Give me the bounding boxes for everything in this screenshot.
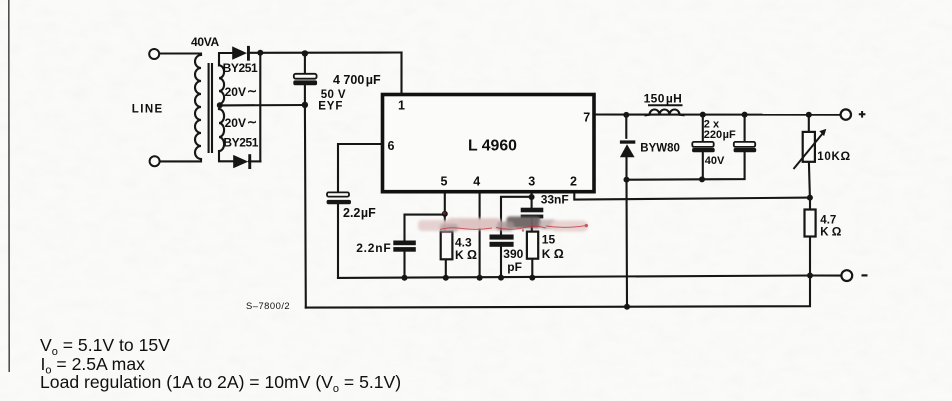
svg-text:L 4960: L 4960 — [468, 137, 517, 154]
svg-text:33nF: 33nF — [541, 192, 569, 206]
svg-text:K Ω: K Ω — [455, 248, 477, 262]
svg-text:K Ω: K Ω — [820, 224, 842, 238]
capacitor C6b 220uF — [734, 142, 757, 152]
wire: pin 4 down to rail — [479, 192, 481, 278]
wire: 390pF bottom to rail — [500, 247, 502, 278]
wire: BYW80 cathode up to rail — [625, 115, 627, 138]
transformer T1 primary winding — [195, 55, 201, 159]
wire: BYW80 anode down, through to ground rail — [625, 157, 628, 307]
svg-text:K Ω: K Ω — [542, 247, 564, 261]
svg-text:40V: 40V — [705, 155, 725, 167]
node: pin5 / 2.2nF junction — [442, 211, 448, 217]
wire: pot R3 bottom to pin2 junction — [809, 162, 810, 198]
svg-text:5: 5 — [441, 175, 448, 189]
wire: minus terminal stub — [810, 274, 841, 276]
wire: 2.2nF top to pin5 junction — [405, 215, 445, 241]
wire: pin 2 feedback to potentiometer junction — [574, 192, 810, 200]
diode D2 BY251 bottom — [233, 154, 251, 169]
svg-text:2: 2 — [570, 175, 577, 189]
capacitor C3 2.2nF — [393, 241, 416, 252]
IC U1 L4960 — [383, 95, 595, 192]
node: center tap at C1 — [302, 102, 308, 108]
svg-text:S–7800/2: S–7800/2 — [246, 300, 290, 311]
svg-text:LINE: LINE — [132, 104, 164, 116]
node: output rail C6b — [742, 112, 748, 118]
svg-text:220µF: 220µF — [704, 129, 736, 141]
node: pin3 / 390pF junction — [529, 194, 535, 200]
minus sign — [862, 274, 868, 276]
capacitor C1 4700uF — [293, 74, 317, 85]
node: rectifier riser joins top wire — [257, 50, 263, 56]
svg-text:4: 4 — [473, 175, 480, 189]
wire: C1 bottom down to ground rail — [304, 85, 307, 308]
svg-text:150µH: 150µH — [644, 92, 683, 106]
svg-text:20V∼: 20V∼ — [225, 115, 257, 130]
svg-text:BY251: BY251 — [223, 61, 258, 75]
node: rail 390pF — [498, 275, 504, 281]
wire: line input bottom terminal to primary — [161, 159, 202, 161]
capacitor C2 2.2uF — [327, 192, 351, 204]
component ground rail — [338, 276, 810, 278]
svg-text:7: 7 — [583, 110, 590, 124]
terminal + output — [841, 109, 851, 119]
node: rail R1 — [443, 275, 449, 281]
wire: pin 3 down to 33nF — [531, 192, 533, 208]
wire: secondary bottom to diode D2 — [219, 151, 233, 161]
svg-text:BY251: BY251 — [223, 136, 258, 150]
sub rail under output filter caps — [627, 152, 745, 180]
scan page edge line — [8, 0, 10, 372]
node: output rail C6a — [700, 112, 706, 118]
wire: R4 top — [809, 198, 811, 210]
svg-text:20V∼: 20V∼ — [225, 84, 257, 99]
node: BYW80 anode / sub rail — [624, 177, 630, 183]
wire: R2 bottom to rail — [531, 259, 533, 278]
node: rail R2 — [529, 275, 535, 281]
inductor L1 150uH — [646, 109, 684, 115]
node: R4 bottom / minus rail — [807, 273, 813, 279]
transformer T1 core — [208, 64, 210, 152]
wire: pin 5 down to R1 — [444, 192, 446, 232]
wire: pin 6 to C2 — [338, 144, 383, 192]
wire: 2.2nF bottom to rail — [403, 252, 405, 278]
bottom caption text — [40, 335, 401, 395]
schematic labels — [132, 35, 851, 311]
resistor R2 15K — [527, 232, 538, 259]
node: rail 2.2nF — [402, 275, 408, 281]
wire: pin 1 riser into IC — [400, 53, 402, 95]
capacitor C5 33nF — [521, 208, 544, 219]
svg-text:1: 1 — [398, 99, 405, 113]
node: rail pin4 — [477, 275, 483, 281]
node: pin2 / pot wiper junction — [807, 195, 813, 201]
svg-text:3: 3 — [528, 175, 535, 189]
terminal LINE bottom — [150, 156, 160, 166]
svg-text:pF: pF — [507, 260, 522, 274]
terminal - output — [841, 270, 852, 281]
svg-text:50 V: 50 V — [321, 89, 346, 101]
wire: pot R3 top — [808, 115, 810, 132]
diode D1 BY251 top — [232, 46, 250, 61]
wire: D2 cathode to riser — [249, 160, 260, 162]
resistor R1 4.3K — [441, 232, 453, 260]
plus sign — [859, 111, 866, 118]
svg-text:2.2µF: 2.2µF — [343, 206, 376, 220]
node: center tap at transformer — [217, 102, 223, 108]
resistor R4 4.7K — [805, 210, 816, 237]
svg-text:BYW80: BYW80 — [640, 142, 680, 154]
svg-text:Load regulation (1A to 2A) = 1: Load regulation (1A to 2A) = 10mV (Vo = … — [40, 372, 401, 395]
terminal LINE top — [149, 49, 159, 59]
wire: line input top terminal to primary — [160, 54, 201, 56]
node: output rail pot — [806, 112, 812, 118]
wire: R4 bottom to minus rail — [809, 237, 811, 276]
wire: C6a top — [702, 115, 704, 142]
node: C1 top — [302, 50, 308, 56]
wire: C6b top — [744, 115, 746, 142]
output rail from pin 7 — [595, 113, 841, 115]
wire: C6a bottom — [702, 152, 704, 179]
wire: center tap to C1 — [220, 104, 305, 107]
transformer T1 secondary upper winding — [219, 65, 224, 104]
node: ground rail / BYW80 column — [624, 304, 630, 310]
potentiometer R3 10K — [794, 129, 827, 169]
svg-text:15: 15 — [542, 233, 556, 247]
capacitor C4 390pF — [490, 235, 514, 247]
wire: D1 cathode to pin1 corner — [248, 51, 402, 53]
wire: 33nF to R2 — [531, 218, 533, 231]
label 150uH underline — [649, 104, 682, 106]
wire: rectifier riser — [259, 53, 261, 162]
wire: secondary top to diode D1 — [219, 53, 232, 65]
IC pin number labels — [388, 99, 591, 189]
wire: C2 bottom to component rail — [337, 204, 339, 278]
svg-text:390: 390 — [503, 247, 523, 261]
svg-text:40VA: 40VA — [191, 35, 220, 49]
svg-text:6: 6 — [388, 139, 395, 153]
node: sub rail C6a — [699, 176, 705, 182]
transformer T1 secondary lower winding — [219, 109, 224, 151]
wire: C1 top connection — [304, 53, 306, 73]
diode D3 BYW80 — [620, 140, 635, 157]
svg-text:EYF: EYF — [318, 101, 343, 113]
wire: R1 bottom to rail — [445, 259, 447, 277]
svg-text:4 700µF: 4 700µF — [333, 73, 381, 87]
node: output rail BYW80 — [623, 112, 629, 118]
watermark smudge band — [418, 217, 588, 233]
ground rail bottom — [306, 276, 810, 308]
svg-text:10KΩ: 10KΩ — [817, 149, 851, 163]
wire: 390pF top to pin3 junction — [501, 197, 532, 235]
svg-text:2.2nF: 2.2nF — [356, 241, 391, 255]
capacitor C6a 220uF — [692, 142, 715, 152]
